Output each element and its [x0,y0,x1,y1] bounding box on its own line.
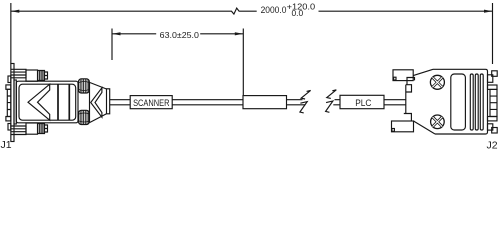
J1 top boss (hatched) [79,79,90,93]
J1 top jackscrew shaft [11,69,26,78]
arrowhead left (2000 dim) [11,10,19,13]
J2 mating face bottom bar [488,117,498,121]
arrowhead left (63 dim) [112,32,121,35]
J2 mating face top outer step [492,71,498,77]
svg-text:J1: J1 [1,139,12,150]
extension line right (63 dim) [242,29,244,96]
J1 mating face top tab [8,76,11,83]
sleeve marker box [243,96,287,109]
J1 top jackscrew cap [44,72,48,79]
J1 bottom jackscrew shaft [11,126,26,135]
J2 bottom screw (circle with cross) [431,115,445,129]
J1 body middle band [58,84,69,120]
break symbol right upper [327,90,337,99]
J1 body inner outline [19,84,76,120]
wire J1 to scanner box [110,100,131,105]
break symbol left lower [300,102,307,113]
J1 bottom jackscrew cap [44,125,48,132]
J2 hood bottom chamfer [414,121,436,134]
J1 top jackscrew knurl [38,71,45,81]
J2 mating face barrel [490,89,497,116]
svg-text:PLC: PLC [355,98,371,108]
svg-text:63.0±25.0: 63.0±25.0 [160,30,200,40]
J2 top screw (circle with cross) [430,75,444,89]
J1 nose chevron band [91,88,102,117]
J1 mating face barrel [7,89,11,116]
wire sleeve to break [287,100,306,105]
J2 mating face bottom tab [488,124,493,130]
J2 bottom step [404,114,412,122]
J1 mating face top bar [6,85,11,89]
dimension line 63.0 [112,33,243,35]
scanner label box [130,96,172,109]
J1 top jackscrew head [26,70,38,81]
arrowhead right (63 dim) [235,32,244,35]
J1 nose outline [90,82,107,122]
svg-text:2000.0: 2000.0 [261,5,287,15]
J2 top step [406,85,412,92]
J1 mating face bottom bar [6,117,11,121]
svg-text:SCANNER: SCANNER [133,98,169,108]
J2 narrow grip rib 2 [475,74,478,130]
J2 mating face top tab [488,75,493,83]
break symbol left upper [301,90,311,99]
J1 mating face bottom tab [8,124,11,131]
J2 top snout box [407,78,415,85]
wire break to plc box [333,100,340,105]
svg-text:0.0: 0.0 [292,8,304,18]
J2 mating face top bar [488,85,498,89]
svg-text:J2: J2 [487,139,498,150]
J2 bottom thumbscrew detail square [392,129,395,132]
J1 body lip [14,80,16,124]
extension line left (overall dim) [10,3,12,64]
J2 top thumbscrew detail square [394,77,396,80]
J2 mating face bottom outer step [492,128,498,134]
wire scanner to sleeve [172,100,243,105]
J2 narrow grip rib 1 [470,74,473,130]
J1 cable collar [107,89,110,114]
J2 narrow grip rib 3 [480,74,483,130]
extension line left (63 dim) [111,29,113,61]
J1 bottom jackscrew head [26,123,38,134]
J2 bottom thumbscrew [392,121,414,132]
J2 hood body outline [433,69,488,134]
wire plc to J2 [384,100,406,105]
dimension line 2000.0 left segment with break zigzag [11,8,257,14]
J2 back face [405,85,407,114]
J1 body chevron band [28,84,50,120]
J2 hood top chamfer [413,69,433,75]
J1 flange plate [11,64,14,142]
arrowhead right (2000 dim) [484,10,493,13]
J2 wide grip rib [451,74,466,130]
plc label box [340,95,384,108]
J1 bottom jackscrew knurl [38,124,45,134]
J1 overmold body [16,81,78,123]
dimension line 2000.0 right segment [319,10,493,12]
break symbol right lower [326,101,333,112]
extension line right (overall dim) [492,3,494,64]
J1 bottom boss (hatched) [79,110,90,124]
J2 top thumbscrew [393,70,413,81]
